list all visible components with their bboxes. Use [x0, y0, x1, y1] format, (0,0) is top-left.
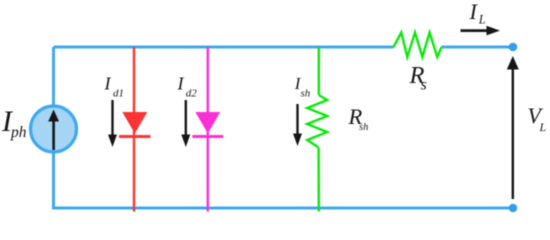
arrow Id2	[181, 100, 190, 147]
wire top (right segment)	[442, 46, 514, 49]
svg-text:sh: sh	[359, 122, 368, 133]
svg-text:I: I	[177, 74, 185, 94]
resistor Rs	[394, 33, 442, 58]
arrow Id1	[108, 100, 117, 147]
svg-text:s: s	[421, 77, 427, 94]
svg-text:I: I	[469, 0, 479, 24]
arrow IL	[461, 26, 501, 36]
svg-text:d2: d2	[186, 88, 198, 100]
wire branch D1	[133, 47, 135, 212]
diode D1	[119, 112, 151, 137]
node bottom-right terminal	[509, 204, 518, 213]
arrow VL	[507, 56, 519, 199]
wire left	[52, 47, 55, 208]
wire branch Rsh	[317, 47, 320, 212]
wire top (left segment)	[54, 46, 394, 49]
arrow Ish	[293, 104, 302, 146]
svg-text:d1: d1	[113, 88, 124, 100]
svg-text:sh: sh	[301, 88, 311, 100]
current source Iph	[31, 106, 77, 152]
wire branch D2	[207, 47, 209, 212]
resistor Rsh	[307, 95, 327, 148]
svg-text:ph: ph	[10, 124, 27, 141]
node top-right terminal	[509, 43, 518, 52]
svg-text:L: L	[478, 12, 486, 26]
diode D2	[192, 112, 223, 137]
wire bottom	[52, 207, 513, 210]
svg-text:I: I	[104, 74, 112, 94]
svg-text:L: L	[539, 120, 547, 134]
